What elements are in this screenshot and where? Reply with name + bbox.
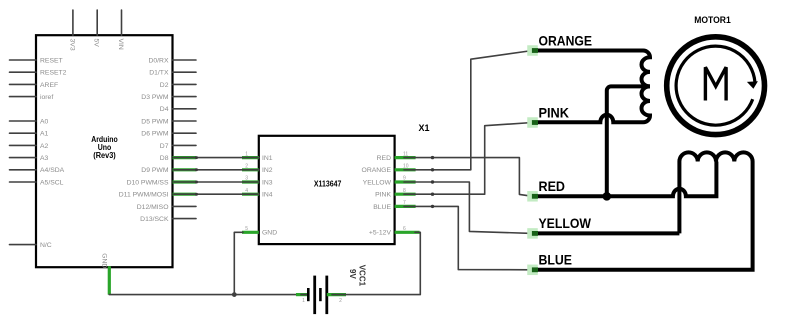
wire battery pin 2 to X113647 +5-12V	[332, 232, 420, 294]
svg-text:X113647: X113647	[314, 180, 342, 189]
svg-text:ioref: ioref	[40, 94, 53, 101]
wire X113647 GND to ground junction	[234, 232, 243, 294]
Arduino pin D10 leg	[127, 179, 196, 186]
X113647 pin GND leg, pin 5	[242, 226, 277, 237]
svg-text:10: 10	[403, 164, 409, 170]
X113647 pin IN4 leg, pin 4	[242, 188, 273, 199]
svg-text:D8: D8	[160, 155, 169, 162]
junction RED node	[603, 192, 612, 201]
svg-text:IN4: IN4	[262, 192, 273, 199]
svg-text:5: 5	[245, 226, 248, 232]
svg-text:1: 1	[245, 151, 248, 157]
wire BLUE pin 7 to BLUE net	[404, 206, 533, 269]
svg-text:D10 PWM/SS: D10 PWM/SS	[127, 179, 169, 186]
wire ORANGE pin 10 to ORANGE net	[404, 51, 533, 170]
Arduino right pins D0-D7, D12, D13	[137, 57, 196, 223]
Arduino pin D11 leg	[119, 192, 196, 199]
net label ORANGE	[527, 32, 592, 55]
motor rotation arrowhead	[747, 81, 758, 89]
wire winding A center tap (RED net) down to junction	[607, 86, 650, 196]
svg-text:YELLOW: YELLOW	[363, 179, 392, 186]
svg-text:BLUE: BLUE	[539, 252, 573, 268]
svg-text:7: 7	[403, 200, 406, 206]
X113647 pin +5-12V leg, pin 6	[369, 226, 420, 237]
svg-text:D1/TX: D1/TX	[149, 70, 169, 77]
battery VCC1 9V	[296, 265, 367, 314]
svg-text:N/C: N/C	[40, 242, 52, 249]
X113647 pin ORANGE leg, pin 10	[362, 164, 416, 175]
wire D11 to IN4	[174, 193, 259, 195]
svg-text:IN2: IN2	[262, 167, 273, 174]
svg-text:3V3: 3V3	[68, 39, 75, 51]
svg-text:A3: A3	[40, 155, 49, 162]
svg-text:A2: A2	[40, 143, 49, 150]
svg-text:D12/MISO: D12/MISO	[137, 204, 169, 211]
svg-text:4: 4	[245, 188, 248, 194]
svg-text:ORANGE: ORANGE	[362, 167, 392, 174]
svg-text:VIN: VIN	[117, 39, 124, 50]
svg-text:2: 2	[339, 298, 342, 304]
svg-text:2: 2	[245, 164, 248, 170]
X113647 pin RED leg, pin 11	[377, 151, 416, 162]
svg-text:BLUE: BLUE	[373, 204, 391, 211]
motor MOTOR1 outer circle	[667, 37, 765, 135]
svg-text:3: 3	[245, 176, 248, 182]
svg-text:D9 PWM: D9 PWM	[141, 167, 169, 174]
Arduino GND pin leg	[100, 253, 109, 294]
motor M glyph	[705, 67, 726, 100]
svg-text:6: 6	[403, 226, 406, 232]
svg-text:IN3: IN3	[262, 179, 273, 186]
svg-text:AREF: AREF	[40, 82, 58, 89]
svg-text:PINK: PINK	[375, 192, 391, 199]
svg-text:(Rev3): (Rev3)	[93, 151, 116, 160]
svg-text:GND: GND	[262, 230, 277, 237]
X113647 pin BLUE leg, pin 7	[373, 200, 415, 211]
svg-text:D2: D2	[160, 82, 169, 89]
svg-text:A0: A0	[40, 118, 49, 125]
wire D10 to IN3	[174, 181, 259, 183]
svg-text:VCC1: VCC1	[358, 265, 367, 287]
X113647 pin YELLOW leg, pin 9	[363, 176, 416, 187]
net label RED	[527, 178, 565, 201]
svg-text:D13/SCK: D13/SCK	[140, 216, 169, 223]
svg-text:D4: D4	[160, 106, 169, 113]
X113647 pin IN3 leg, pin 3	[242, 176, 273, 187]
svg-text:A4/SDA: A4/SDA	[40, 167, 65, 174]
svg-text:IN1: IN1	[262, 155, 273, 162]
svg-text:1: 1	[302, 298, 305, 304]
svg-text:RESET2: RESET2	[40, 70, 67, 77]
Arduino pin N/C	[10, 242, 52, 249]
stepper winding B (YELLOW - center tap - BLUE), coil at y=162	[533, 152, 753, 269]
Arduino left pins RESET RESET2 AREF ioref	[10, 57, 67, 101]
wire D8 to IN1	[174, 157, 259, 159]
Arduino analog pins A0-A5	[10, 118, 65, 186]
svg-text:D7: D7	[160, 143, 169, 150]
Arduino pin D8 leg	[160, 155, 196, 162]
svg-text:ORANGE: ORANGE	[539, 32, 593, 48]
Arduino top pins 3V3 5V VIN	[68, 10, 124, 51]
wire ground junction to battery pin 1	[234, 294, 301, 296]
X113647 pin PINK leg, pin 8	[375, 188, 415, 199]
svg-text:8: 8	[403, 188, 406, 194]
X113647 pin IN1 leg, pin 1	[242, 151, 273, 162]
wire RED net horizontal with hop over winding B left lead	[533, 162, 717, 197]
net label BLUE	[527, 252, 572, 275]
wire PINK pin 8 to PINK net	[404, 123, 533, 195]
svg-text:D0/RX: D0/RX	[148, 57, 168, 64]
svg-text:YELLOW: YELLOW	[539, 215, 592, 231]
wire Arduino GND to ground junction	[109, 294, 234, 296]
svg-text:D5 PWM: D5 PWM	[141, 118, 169, 125]
svg-text:D6 PWM: D6 PWM	[141, 131, 169, 138]
wire bendpoint dots	[195, 156, 434, 208]
Arduino pin D9 leg	[141, 167, 196, 174]
junction ground node	[232, 292, 237, 297]
Arduino U1 (Arduino Uno Rev3) body	[36, 35, 173, 267]
svg-text:RED: RED	[539, 178, 566, 194]
wire YELLOW pin 9 to YELLOW net	[404, 182, 533, 233]
svg-text:RESET: RESET	[40, 57, 63, 64]
net label PINK	[527, 104, 569, 127]
svg-text:GND: GND	[100, 253, 107, 268]
wire D9 to IN2	[174, 169, 259, 171]
net label YELLOW	[527, 215, 591, 238]
svg-text:D11 PWM/MOSI: D11 PWM/MOSI	[119, 192, 169, 199]
svg-text:+5-12V: +5-12V	[369, 230, 392, 237]
svg-text:PINK: PINK	[539, 104, 570, 120]
X113647 stepper driver board body	[259, 136, 395, 244]
svg-text:11: 11	[403, 151, 408, 157]
X113647 pin IN2 leg, pin 2	[242, 164, 273, 175]
motor rotation arrow arc	[676, 46, 755, 125]
svg-text:A5/SCL: A5/SCL	[40, 179, 64, 186]
svg-text:9V: 9V	[348, 269, 357, 279]
svg-text:X1: X1	[418, 123, 429, 133]
svg-text:D3 PWM: D3 PWM	[141, 94, 169, 101]
wire RED pin 11 to RED net	[404, 158, 533, 197]
svg-text:5V: 5V	[93, 39, 100, 48]
stepper winding A (ORANGE - center tap - PINK), coil at x=650	[533, 51, 651, 123]
svg-text:RED: RED	[377, 155, 391, 162]
svg-text:9: 9	[403, 176, 406, 182]
svg-text:A1: A1	[40, 131, 49, 138]
wire YELLOW net to winding B left lead	[533, 231, 680, 235]
svg-text:MOTOR1: MOTOR1	[694, 15, 731, 25]
